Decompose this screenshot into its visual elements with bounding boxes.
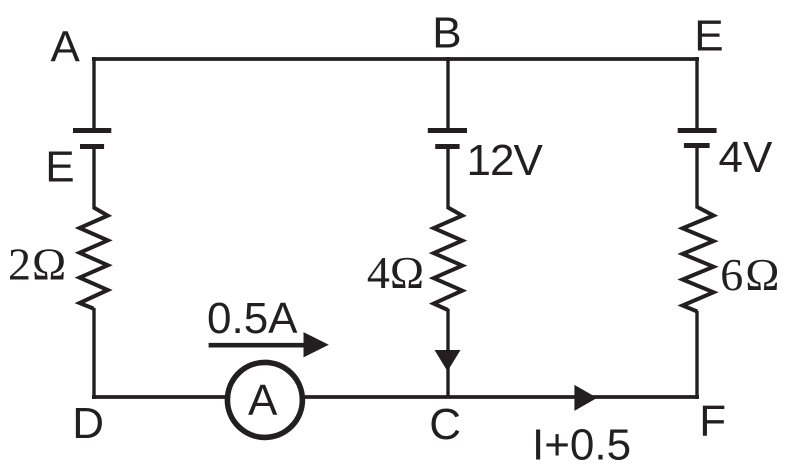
wire battery 4V to resistor 6ohm (695, 146, 698, 209)
wire battery 12V to resistor 4ohm (446, 147, 449, 210)
svg-text:4Ω: 4Ω (367, 247, 424, 298)
battery E long plate (73, 128, 111, 133)
wire bottom D to ammeter (92, 395, 225, 399)
resistor 4ohm zigzag (434, 208, 463, 311)
current arrow 0.5A head (304, 332, 329, 357)
wire middle vertical B to battery 12V (446, 57, 449, 128)
wire right vertical E to battery 4V (695, 57, 698, 128)
wire battery E to resistor 2ohm (92, 147, 95, 210)
svg-text:D: D (72, 399, 104, 448)
wire resistor 2ohm to node D (92, 308, 95, 399)
wire resistor 4ohm to node C (446, 309, 449, 397)
svg-text:E: E (694, 12, 723, 61)
current arrowhead right on bottom wire C to F (574, 385, 597, 411)
battery 12V long plate (428, 128, 467, 133)
resistor 6ohm zigzag (683, 207, 714, 312)
battery 4V long plate (678, 128, 717, 133)
svg-text:0.5A: 0.5A (207, 294, 298, 343)
battery 12V short plate (435, 144, 459, 149)
wire ammeter to node C (305, 395, 448, 399)
battery E short plate (80, 144, 104, 149)
svg-text:A: A (51, 22, 81, 71)
wire top A-B-E (92, 57, 699, 61)
current direction arrowhead down on middle branch (435, 350, 461, 371)
svg-text:F: F (699, 396, 726, 445)
svg-text:A: A (248, 376, 278, 425)
battery 4V short plate (684, 143, 710, 148)
wire resistor 6ohm to node F (695, 311, 698, 399)
svg-text:B: B (432, 9, 461, 58)
svg-text:12V: 12V (467, 136, 544, 185)
resistor 2ohm zigzag (80, 208, 108, 309)
svg-text:E: E (45, 142, 74, 191)
svg-text:C: C (429, 400, 461, 449)
ammeter U1 circle (227, 362, 302, 437)
svg-text:2Ω: 2Ω (8, 238, 67, 289)
svg-text:I+0.5: I+0.5 (532, 421, 631, 470)
svg-text:4V: 4V (719, 133, 773, 182)
svg-text:6Ω: 6Ω (720, 249, 781, 300)
current arrow 0.5A shaft (209, 343, 307, 348)
wire bottom C to F (448, 395, 699, 399)
wire left vertical A to battery E (92, 57, 95, 128)
